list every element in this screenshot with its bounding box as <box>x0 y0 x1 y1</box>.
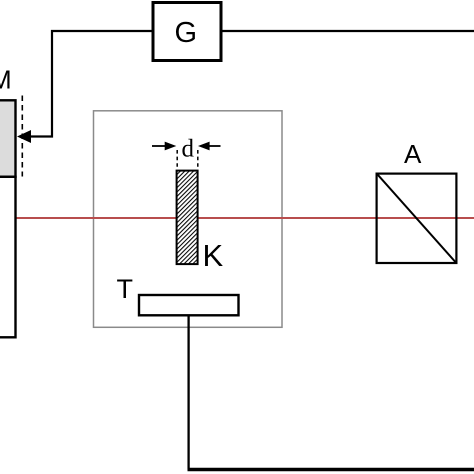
svg-text:M: M <box>0 65 12 95</box>
svg-text:K: K <box>203 238 224 273</box>
svg-text:A: A <box>404 139 422 169</box>
svg-text:d: d <box>182 136 195 163</box>
svg-text:T: T <box>117 274 134 304</box>
svg-text:G: G <box>175 17 198 49</box>
